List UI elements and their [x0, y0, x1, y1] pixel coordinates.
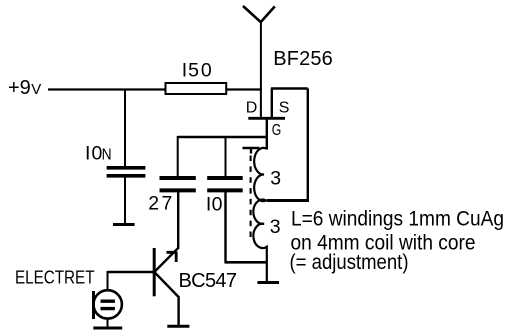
- svg-text:G: G: [272, 122, 282, 139]
- svg-text:V: V: [31, 81, 41, 98]
- svg-text:I0: I0: [206, 193, 223, 215]
- svg-text:BF256: BF256: [273, 48, 333, 70]
- svg-text:L=6 windings 1mm CuAg: L=6 windings 1mm CuAg: [291, 208, 504, 231]
- svg-text:D: D: [246, 100, 258, 117]
- svg-text:N: N: [102, 147, 112, 164]
- svg-text:S: S: [279, 100, 290, 117]
- svg-text:3: 3: [270, 168, 281, 190]
- svg-text:I50: I50: [182, 60, 212, 82]
- svg-text:ELECTRET: ELECTRET: [15, 268, 95, 288]
- svg-text:BC547: BC547: [179, 270, 238, 292]
- svg-text:+9: +9: [8, 77, 31, 99]
- svg-text:3: 3: [270, 216, 281, 238]
- svg-text:I0: I0: [85, 143, 103, 165]
- svg-text:(= adjustment): (= adjustment): [290, 251, 409, 274]
